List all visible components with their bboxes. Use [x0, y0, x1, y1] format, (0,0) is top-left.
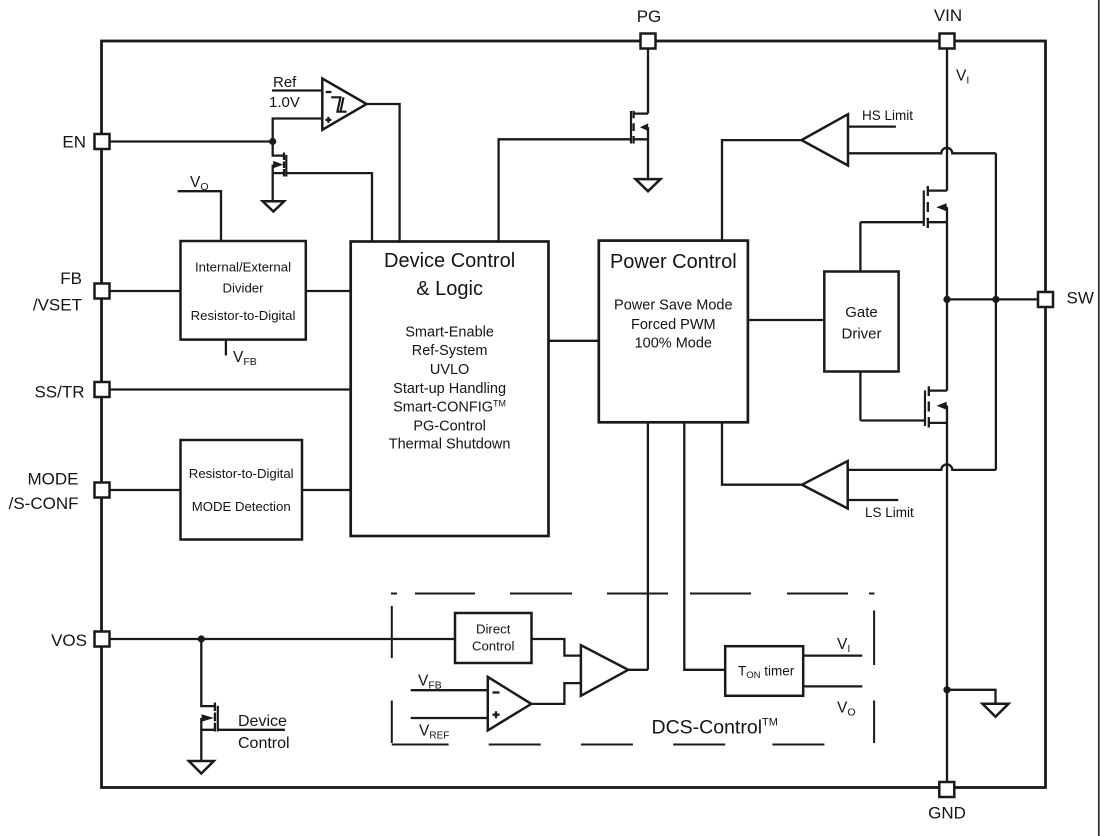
svg-text:Device: Device	[238, 713, 287, 730]
svg-text:Control: Control	[238, 735, 290, 752]
svg-text:MODE Detection: MODE Detection	[192, 499, 291, 514]
svg-text:EN: EN	[62, 132, 86, 151]
svg-text:1.0V: 1.0V	[269, 94, 300, 111]
svg-text:Ref-System: Ref-System	[412, 343, 488, 359]
svg-text:100% Mode: 100% Mode	[635, 336, 712, 352]
svg-text:Power Control: Power Control	[610, 251, 737, 273]
svg-text:VI: VI	[837, 636, 850, 655]
svg-text:Forced PWM: Forced PWM	[631, 317, 716, 333]
svg-text:Start-up Handling: Start-up Handling	[393, 381, 506, 397]
svg-text:VFB: VFB	[418, 673, 442, 692]
svg-text:Device Control: Device Control	[384, 250, 515, 272]
svg-text:SS/TR: SS/TR	[34, 382, 84, 401]
svg-text:Resistor-to-Digital: Resistor-to-Digital	[191, 308, 296, 323]
svg-text:/VSET: /VSET	[33, 296, 82, 315]
svg-text:& Logic: & Logic	[416, 278, 483, 300]
svg-text:VIN: VIN	[934, 6, 962, 25]
svg-text:Smart-Enable: Smart-Enable	[405, 325, 494, 341]
svg-text:PG-Control: PG-Control	[413, 418, 486, 434]
svg-text:Smart-CONFIGTM: Smart-CONFIGTM	[393, 399, 506, 416]
svg-text:/S-CONF: /S-CONF	[9, 494, 79, 513]
svg-text:VOS: VOS	[51, 631, 87, 650]
svg-text:Power Save Mode: Power Save Mode	[614, 298, 732, 314]
svg-text:Resistor-to-Digital: Resistor-to-Digital	[189, 466, 294, 481]
svg-text:Divider: Divider	[222, 281, 264, 296]
svg-text:Internal/External: Internal/External	[195, 260, 291, 275]
svg-text:DCS-ControlTM: DCS-ControlTM	[652, 717, 778, 739]
svg-text:SW: SW	[1067, 289, 1094, 308]
svg-text:Driver: Driver	[842, 325, 882, 342]
svg-text:PG: PG	[637, 7, 662, 26]
svg-text:LS Limit: LS Limit	[865, 505, 914, 520]
svg-text:VO: VO	[837, 700, 856, 719]
svg-text:VI: VI	[956, 68, 969, 87]
svg-text:FB: FB	[60, 269, 82, 288]
svg-text:UVLO: UVLO	[430, 362, 470, 378]
svg-text:Thermal Shutdown: Thermal Shutdown	[389, 437, 511, 453]
svg-text:Control: Control	[472, 639, 515, 654]
svg-text:HS Limit: HS Limit	[862, 108, 913, 123]
svg-text:MODE: MODE	[28, 470, 79, 489]
svg-text:VO: VO	[190, 174, 209, 193]
svg-text:GND: GND	[928, 804, 966, 823]
svg-text:Direct: Direct	[476, 622, 511, 637]
svg-text:VREF: VREF	[419, 723, 449, 742]
svg-text:Gate: Gate	[845, 304, 878, 321]
svg-text:VFB: VFB	[233, 349, 257, 368]
svg-text:Ref: Ref	[273, 74, 297, 91]
